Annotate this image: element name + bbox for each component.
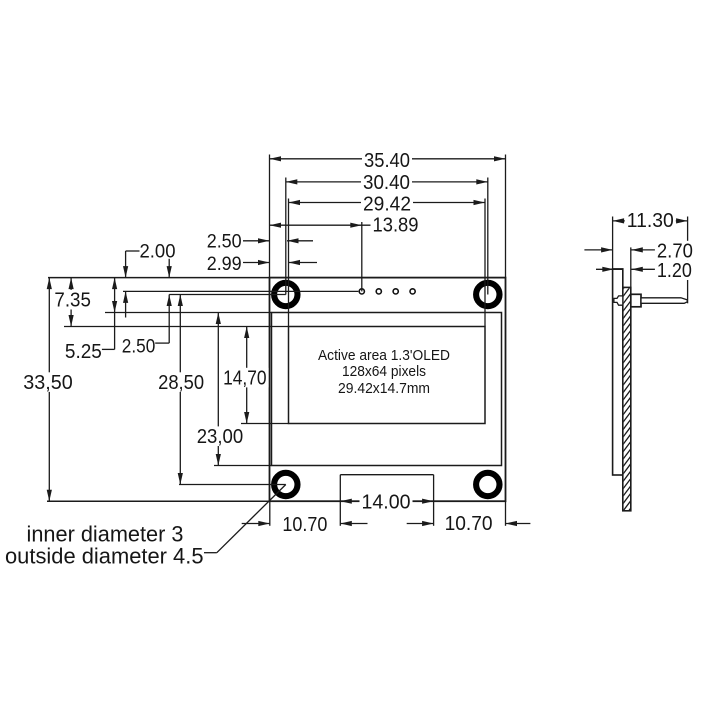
- svg-text:33,50: 33,50: [23, 372, 73, 394]
- note inner diameter: [27, 522, 184, 547]
- svg-text:28,50: 28,50: [158, 372, 204, 394]
- active left edge extension up: [288, 199, 290, 327]
- svg-text:7.35: 7.35: [54, 290, 91, 312]
- svg-text:23,00: 23,00: [197, 426, 244, 448]
- mounting hole top-left (outer 4.5, inner 3): [274, 283, 297, 306]
- svg-text:5.25: 5.25: [65, 341, 102, 363]
- pin header housing: [631, 294, 641, 307]
- svg-text:11.30: 11.30: [627, 210, 674, 232]
- side view PCB (hatched): [623, 287, 631, 510]
- active area top extension line: [64, 326, 289, 328]
- dimension 2.50 top line: [243, 238, 313, 243]
- label 10.70 right: [445, 513, 493, 535]
- svg-text:14,70: 14,70: [223, 367, 267, 389]
- svg-text:2.99: 2.99: [207, 254, 242, 275]
- glass top extension line: [105, 312, 272, 314]
- dimension 14.00 arrows: [340, 499, 433, 504]
- dimension 13.89 line: [270, 223, 373, 228]
- label 2.50 left: [122, 337, 156, 358]
- svg-text:29.42: 29.42: [363, 193, 411, 215]
- dimension 2.00 leader: [123, 251, 140, 318]
- label 2.99: [207, 254, 242, 275]
- dimension 35.40 line: [270, 156, 506, 161]
- glass bottom extension line: [214, 465, 272, 467]
- svg-text:30.40: 30.40: [363, 172, 410, 194]
- dimension 10.70 right: [407, 521, 531, 526]
- svg-text:29.42x14.7mm: 29.42x14.7mm: [338, 380, 430, 397]
- svg-text:Active area 1.3'OLED: Active area 1.3'OLED: [318, 347, 450, 364]
- 14.00 extension box: [340, 475, 433, 526]
- 13.89 extension drop line: [361, 222, 363, 291]
- label 13.89: [371, 214, 421, 236]
- svg-text:outside diameter 4.5: outside diameter 4.5: [5, 543, 204, 568]
- dimension 23.00 line: [216, 313, 221, 466]
- active area bottom extension line: [241, 423, 289, 425]
- label 23,00: [195, 426, 246, 448]
- dimension 10.70 left: [242, 521, 368, 526]
- svg-text:13.89: 13.89: [373, 214, 419, 236]
- label 29.42: [361, 193, 413, 215]
- left hole center extension up: [285, 178, 287, 295]
- label 2.50 top: [207, 231, 242, 252]
- active area text line 1: [318, 347, 450, 364]
- svg-text:1.20: 1.20: [657, 260, 692, 282]
- dimension 33.50 line: [47, 278, 52, 502]
- pin tip through PCB (left stub): [614, 296, 623, 305]
- board top edge extension (left): [48, 277, 270, 279]
- board bottom edge extension (left): [47, 500, 270, 502]
- dimension 5.25 line: [102, 278, 117, 350]
- label 14,70: [221, 367, 269, 389]
- hole diameter leader line: [204, 485, 286, 553]
- dimension 2.99 line: [243, 260, 317, 265]
- right hole center extension up: [487, 178, 489, 295]
- label 7.35: [52, 290, 93, 312]
- svg-text:2.50: 2.50: [207, 231, 242, 252]
- dimension 2.50 left leader: [155, 259, 172, 343]
- label 11.30: [625, 210, 676, 232]
- label 2.70: [655, 240, 695, 262]
- svg-text:10.70: 10.70: [445, 513, 493, 535]
- active area outline: [289, 327, 486, 424]
- dimension 29.42 line: [289, 200, 486, 205]
- label 30.40: [361, 172, 412, 194]
- svg-text:14.00: 14.00: [362, 491, 411, 513]
- dimension 7.35 line: [69, 278, 74, 327]
- label 10.70 left: [282, 514, 327, 536]
- svg-text:2.50: 2.50: [122, 337, 156, 358]
- active right edge extension up: [484, 199, 486, 327]
- svg-text:2.00: 2.00: [140, 241, 176, 262]
- bottom hole center line: [179, 484, 286, 486]
- label 33,50: [21, 372, 75, 394]
- dimension 14.70 line: [244, 327, 249, 424]
- label 5.25: [65, 341, 102, 363]
- header pin: [641, 298, 687, 304]
- dimension 2.70 line: [584, 247, 657, 252]
- active area text line 2: [342, 363, 426, 380]
- pin row center line: [123, 290, 358, 292]
- label 2.00: [140, 241, 176, 262]
- label 1.20: [655, 260, 694, 282]
- PCB board outline (35.40 x 33.50): [270, 278, 506, 502]
- top hole center line: [169, 294, 286, 296]
- mounting hole bottom-right (outer 4.5, inner 3): [476, 473, 499, 496]
- active area text line 3: [338, 380, 430, 397]
- side view glass panel: [613, 269, 623, 475]
- label 14.00: [360, 491, 413, 513]
- board right edge extension up/down: [505, 155, 507, 526]
- pin holes row (4x): [359, 289, 415, 294]
- svg-text:10.70: 10.70: [282, 514, 327, 536]
- note outside diameter: [5, 543, 204, 568]
- svg-text:128x64 pixels: 128x64 pixels: [342, 363, 426, 380]
- dimension 1.20 line: [596, 267, 657, 272]
- svg-text:35.40: 35.40: [364, 150, 410, 172]
- PCB hatch pattern: [621, 276, 633, 521]
- dimension 28.50 line: [178, 295, 183, 485]
- mounting hole top-right (outer 4.5, inner 3): [476, 283, 499, 306]
- board left edge extension up/down: [269, 155, 271, 526]
- side extension lines: [613, 217, 688, 304]
- label 28,50: [156, 372, 206, 394]
- mounting hole bottom-left (outer 4.5, inner 3): [274, 473, 297, 496]
- dimension 30.40 line: [286, 179, 488, 184]
- dimension 11.30 line: [613, 218, 688, 223]
- label 35.40: [362, 150, 412, 172]
- OLED glass outline: [272, 313, 502, 466]
